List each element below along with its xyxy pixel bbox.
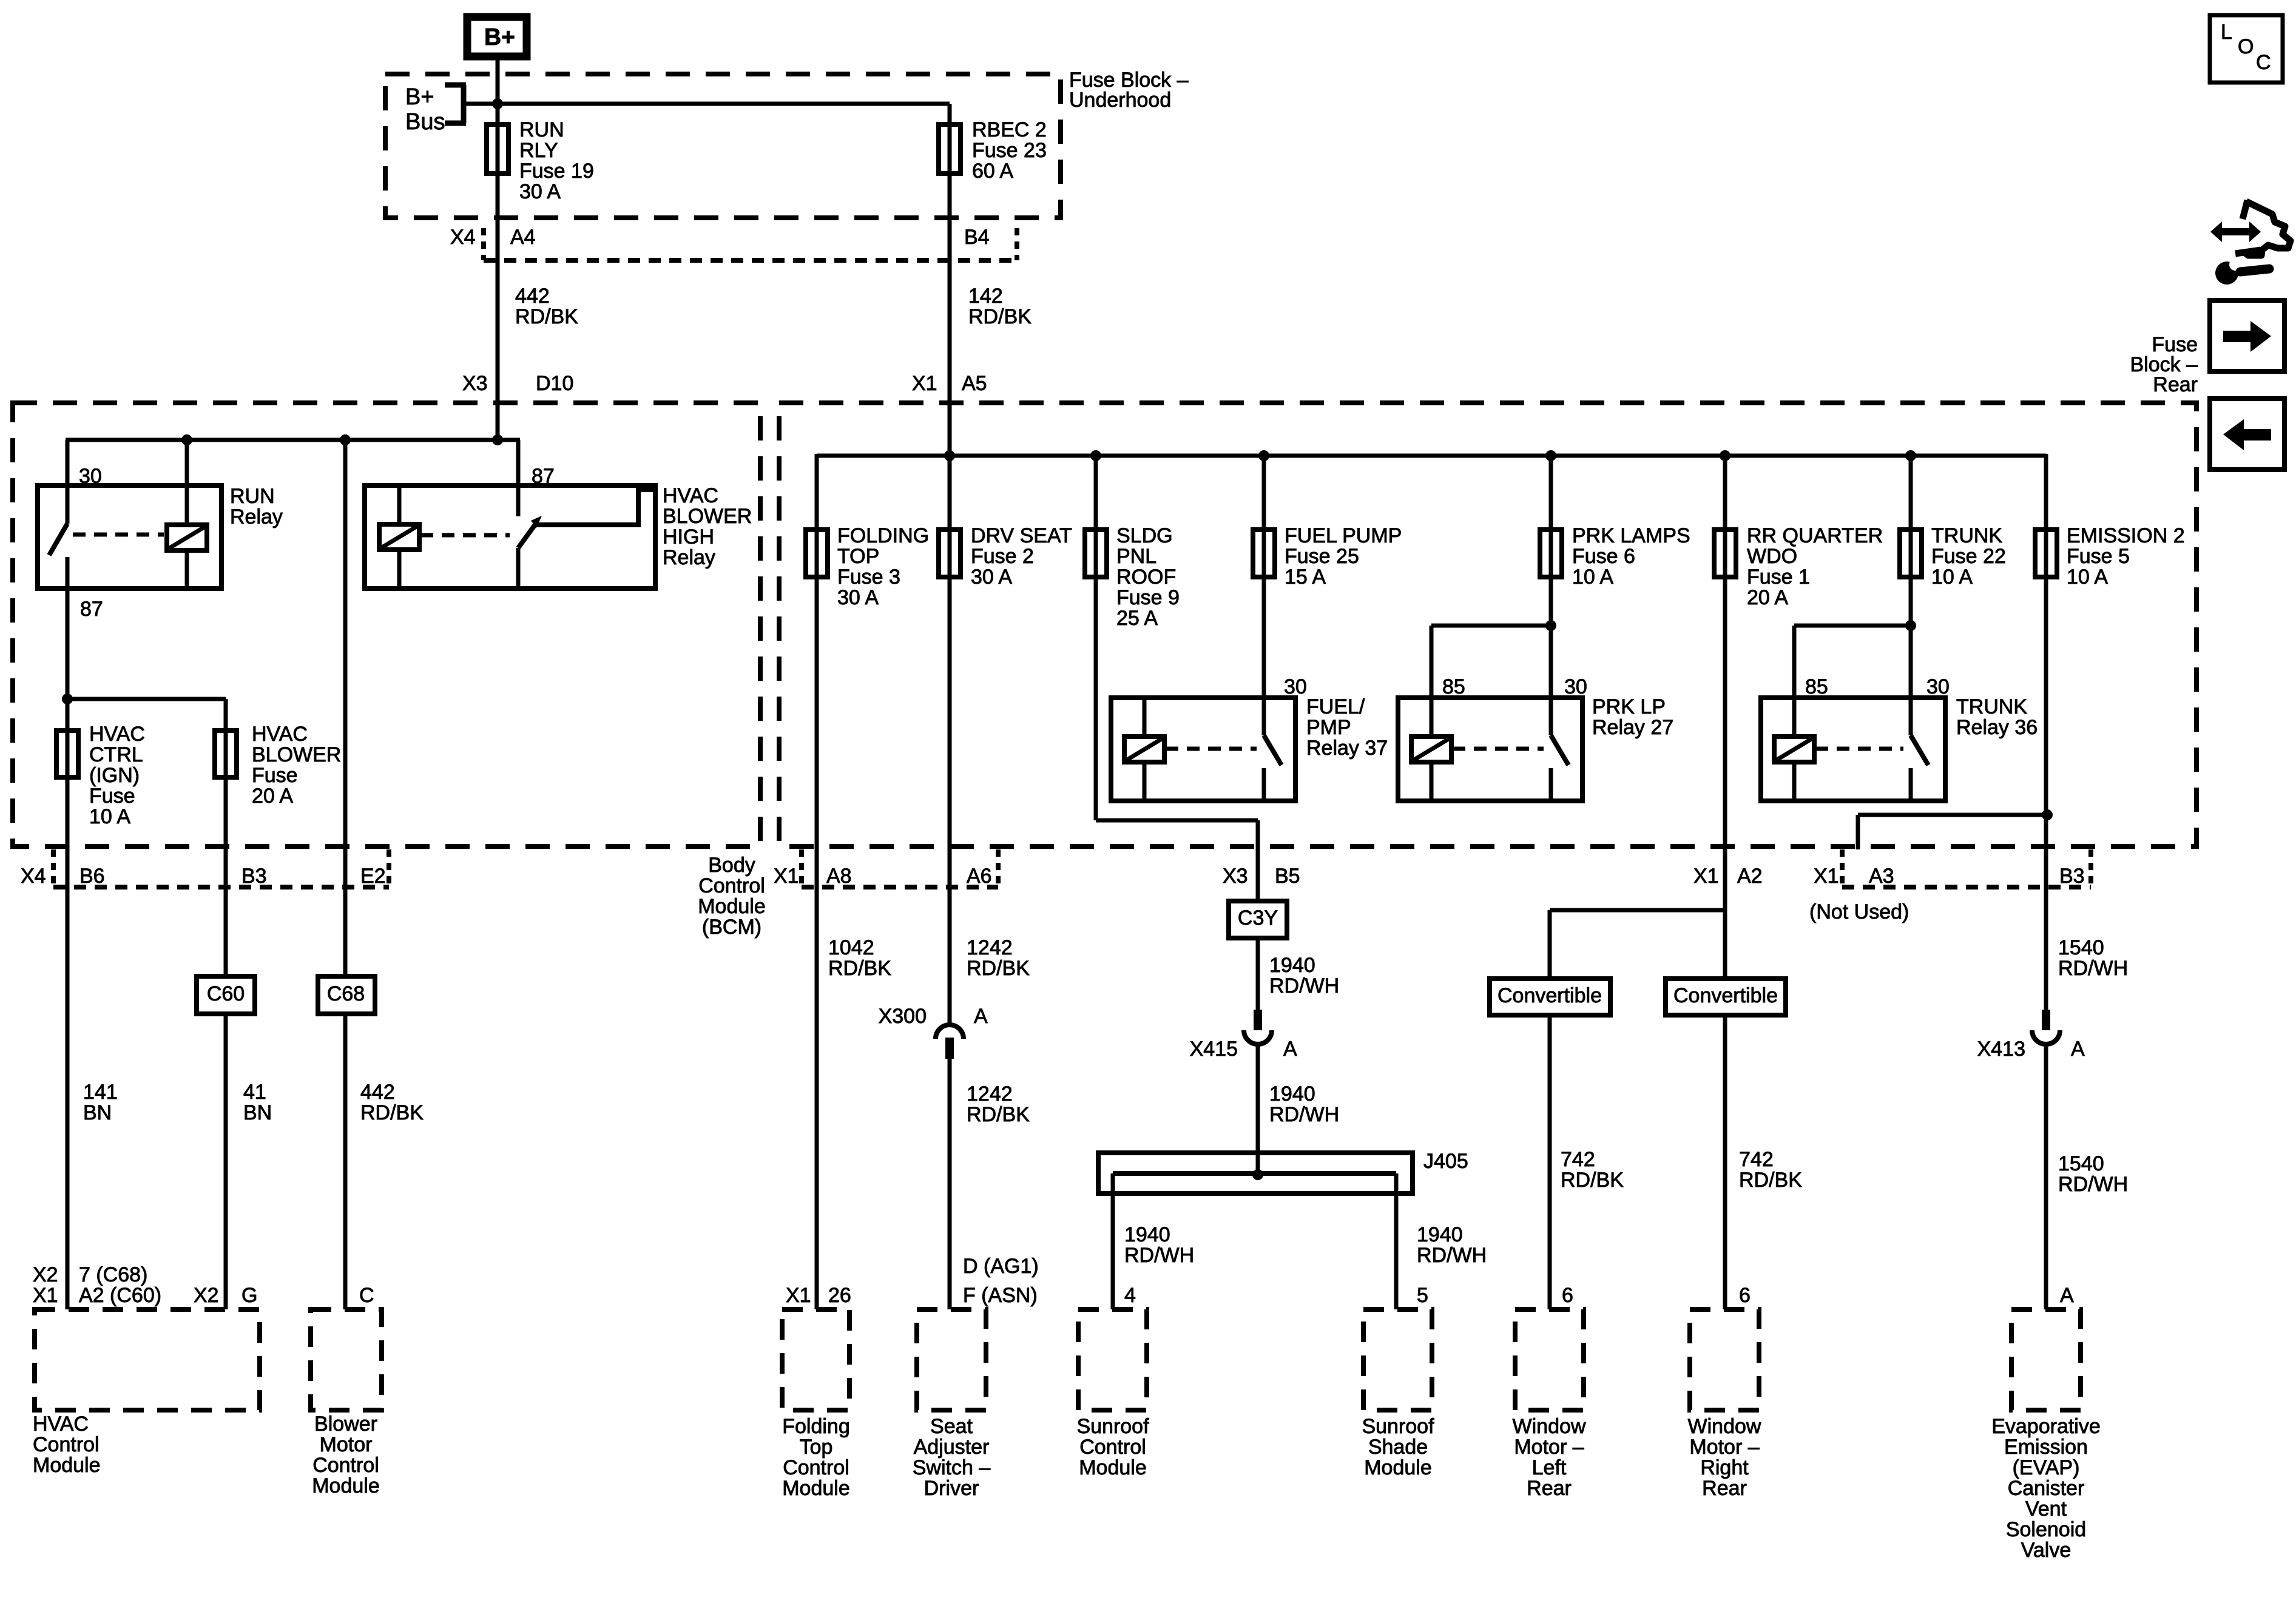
svg-text:RD/BK: RD/BK — [968, 305, 1032, 328]
svg-text:Top: Top — [800, 1436, 833, 1459]
svg-text:Right: Right — [1700, 1456, 1749, 1479]
svg-text:TRUNK: TRUNK — [1956, 695, 2027, 718]
svg-text:60 A: 60 A — [972, 160, 1013, 183]
svg-text:F (ASN): F (ASN) — [963, 1284, 1038, 1307]
svg-text:SLDG: SLDG — [1116, 524, 1173, 547]
svg-text:PNL: PNL — [1116, 545, 1156, 568]
svg-text:J405: J405 — [1423, 1150, 1468, 1173]
svg-text:X1: X1 — [786, 1284, 811, 1307]
svg-text:O: O — [2238, 35, 2254, 58]
svg-text:20 A: 20 A — [252, 785, 293, 808]
svg-text:30 A: 30 A — [971, 565, 1012, 589]
svg-text:(IGN): (IGN) — [89, 764, 140, 787]
svg-text:30 A: 30 A — [837, 586, 879, 609]
svg-text:D10: D10 — [536, 372, 573, 395]
svg-text:30 A: 30 A — [519, 180, 561, 203]
svg-text:6: 6 — [1562, 1284, 1573, 1307]
svg-text:RD/WH: RD/WH — [2058, 957, 2128, 980]
svg-text:442: 442 — [360, 1081, 395, 1104]
svg-text:RD/BK: RD/BK — [1561, 1169, 1624, 1192]
svg-text:Fuse 9: Fuse 9 — [1116, 586, 1180, 609]
svg-text:B5: B5 — [1275, 865, 1300, 888]
svg-text:RBEC 2: RBEC 2 — [972, 118, 1047, 141]
svg-text:BN: BN — [83, 1101, 112, 1124]
svg-text:X1: X1 — [1693, 865, 1719, 888]
svg-text:Sunroof: Sunroof — [1362, 1415, 1434, 1438]
svg-text:Adjuster: Adjuster — [914, 1436, 990, 1459]
svg-text:A2 (C60): A2 (C60) — [79, 1284, 161, 1307]
svg-text:B4: B4 — [964, 226, 990, 249]
svg-text:X2: X2 — [194, 1284, 219, 1307]
svg-text:RD/WH: RD/WH — [1269, 974, 1339, 998]
svg-text:PMP: PMP — [1306, 716, 1351, 739]
svg-text:Fuse 3: Fuse 3 — [837, 565, 900, 589]
svg-text:X2: X2 — [33, 1263, 58, 1286]
svg-text:6: 6 — [1739, 1284, 1751, 1307]
svg-text:PRK LAMPS: PRK LAMPS — [1572, 524, 1690, 547]
svg-text:X300: X300 — [879, 1005, 927, 1028]
svg-text:FOLDING: FOLDING — [837, 524, 929, 547]
svg-text:Module: Module — [312, 1474, 380, 1497]
svg-text:Seat: Seat — [930, 1415, 973, 1438]
svg-text:10 A: 10 A — [1572, 565, 1613, 589]
svg-text:Folding: Folding — [782, 1415, 850, 1438]
svg-text:G: G — [241, 1284, 257, 1307]
svg-text:Relay 37: Relay 37 — [1306, 737, 1388, 760]
svg-text:1042: 1042 — [828, 936, 874, 959]
svg-text:87: 87 — [80, 598, 103, 621]
svg-text:142: 142 — [968, 285, 1003, 308]
svg-text:Blower: Blower — [314, 1413, 377, 1436]
svg-text:Module: Module — [1079, 1456, 1147, 1479]
svg-text:Sunroof: Sunroof — [1076, 1415, 1149, 1438]
svg-text:X1: X1 — [774, 865, 799, 888]
svg-text:Underhood: Underhood — [1069, 89, 1171, 112]
svg-text:Control: Control — [698, 874, 765, 897]
svg-text:Fuse 2: Fuse 2 — [971, 545, 1034, 568]
svg-text:Fuse 19: Fuse 19 — [519, 160, 594, 183]
svg-text:10 A: 10 A — [89, 805, 130, 828]
svg-text:RD/BK: RD/BK — [515, 305, 578, 328]
svg-text:Control: Control — [312, 1454, 379, 1477]
svg-text:Motor –: Motor – — [1514, 1436, 1584, 1459]
svg-text:Body: Body — [708, 854, 755, 877]
svg-text:RD/BK: RD/BK — [967, 957, 1030, 980]
svg-text:85: 85 — [1442, 675, 1465, 698]
svg-text:20 A: 20 A — [1747, 586, 1788, 609]
svg-text:A5: A5 — [962, 372, 987, 395]
svg-text:RD/BK: RD/BK — [1739, 1169, 1802, 1192]
svg-text:1940: 1940 — [1417, 1223, 1463, 1246]
svg-text:HIGH: HIGH — [663, 525, 714, 549]
svg-text:Fuse: Fuse — [252, 764, 298, 787]
svg-text:Fuse: Fuse — [89, 785, 135, 808]
svg-text:D (AG1): D (AG1) — [963, 1255, 1039, 1278]
svg-text:B6: B6 — [79, 865, 105, 888]
svg-text:A8: A8 — [826, 865, 852, 888]
svg-text:141: 141 — [83, 1081, 118, 1104]
svg-text:30: 30 — [79, 465, 102, 488]
svg-text:Control: Control — [783, 1456, 849, 1479]
svg-text:10 A: 10 A — [1931, 565, 1973, 589]
svg-text:Fuse 22: Fuse 22 — [1931, 545, 2006, 568]
svg-text:1242: 1242 — [967, 1082, 1013, 1106]
svg-text:30: 30 — [1926, 675, 1950, 698]
svg-text:X4: X4 — [21, 865, 46, 888]
svg-text:Convertible: Convertible — [1497, 984, 1602, 1007]
svg-text:X1: X1 — [912, 372, 937, 395]
svg-text:C3Y: C3Y — [1238, 906, 1278, 930]
svg-text:1540: 1540 — [2058, 936, 2104, 959]
svg-text:Module: Module — [1364, 1456, 1432, 1479]
svg-text:CTRL: CTRL — [89, 743, 143, 766]
svg-text:Rear: Rear — [1527, 1477, 1572, 1500]
svg-text:A: A — [974, 1005, 988, 1028]
svg-text:41: 41 — [243, 1081, 266, 1104]
svg-text:Vent: Vent — [2025, 1497, 2067, 1521]
svg-text:Control: Control — [1079, 1436, 1146, 1459]
svg-text:RR QUARTER: RR QUARTER — [1747, 524, 1883, 547]
svg-text:(BCM): (BCM) — [702, 916, 761, 939]
svg-text:Driver: Driver — [924, 1477, 979, 1500]
svg-text:Module: Module — [782, 1477, 850, 1500]
svg-text:FUEL PUMP: FUEL PUMP — [1285, 524, 1402, 547]
svg-text:Window: Window — [1688, 1415, 1761, 1438]
svg-text:X3: X3 — [462, 372, 488, 395]
svg-text:Module: Module — [698, 895, 766, 918]
svg-text:C: C — [359, 1284, 374, 1307]
svg-text:X1: X1 — [33, 1284, 58, 1307]
svg-text:B3: B3 — [2059, 865, 2085, 888]
svg-text:PRK LP: PRK LP — [1592, 695, 1666, 718]
svg-text:A: A — [2060, 1284, 2074, 1307]
svg-text:Module: Module — [33, 1454, 101, 1477]
svg-text:TOP: TOP — [837, 545, 879, 568]
svg-text:A6: A6 — [967, 865, 992, 888]
svg-text:Solenoid: Solenoid — [2006, 1518, 2086, 1541]
svg-text:442: 442 — [515, 285, 550, 308]
svg-text:RLY: RLY — [519, 139, 558, 162]
svg-text:Rear: Rear — [1702, 1477, 1747, 1500]
svg-text:C: C — [2256, 51, 2271, 74]
svg-text:1242: 1242 — [967, 936, 1013, 959]
svg-text:B+: B+ — [484, 24, 515, 50]
svg-text:RD/BK: RD/BK — [360, 1101, 424, 1124]
svg-text:Fuse 5: Fuse 5 — [2067, 545, 2130, 568]
svg-text:RUN: RUN — [230, 485, 275, 508]
svg-text:HVAC: HVAC — [252, 723, 308, 746]
svg-text:Control: Control — [33, 1433, 100, 1456]
svg-text:Relay: Relay — [663, 546, 715, 569]
svg-text:BLOWER: BLOWER — [252, 743, 341, 766]
svg-text:RUN: RUN — [519, 118, 564, 141]
svg-text:7 (C68): 7 (C68) — [79, 1263, 147, 1286]
svg-text:Relay 27: Relay 27 — [1592, 716, 1673, 739]
svg-text:RD/WH: RD/WH — [2058, 1173, 2128, 1196]
svg-text:ROOF: ROOF — [1116, 565, 1176, 589]
svg-text:RD/BK: RD/BK — [828, 957, 891, 980]
svg-text:RD/WH: RD/WH — [1124, 1244, 1194, 1267]
svg-text:C60: C60 — [207, 982, 245, 1005]
svg-text:Emission: Emission — [2004, 1436, 2088, 1459]
svg-text:Valve: Valve — [2021, 1539, 2071, 1562]
svg-text:X1: X1 — [1814, 865, 1839, 888]
svg-text:HVAC: HVAC — [89, 723, 145, 746]
svg-text:E2: E2 — [360, 865, 386, 888]
svg-text:X4: X4 — [450, 226, 476, 249]
svg-text:Evaporative: Evaporative — [1991, 1415, 2101, 1438]
svg-text:85: 85 — [1805, 675, 1828, 698]
svg-text:742: 742 — [1561, 1148, 1595, 1171]
svg-text:B3: B3 — [241, 865, 267, 888]
svg-text:10 A: 10 A — [2067, 565, 2108, 589]
svg-text:A4: A4 — [510, 226, 536, 249]
svg-text:A3: A3 — [1869, 865, 1894, 888]
svg-text:4: 4 — [1124, 1284, 1136, 1307]
svg-text:Fuse 1: Fuse 1 — [1747, 565, 1810, 589]
svg-text:BN: BN — [243, 1101, 272, 1124]
svg-text:Bus: Bus — [405, 109, 445, 135]
svg-text:TRUNK: TRUNK — [1931, 524, 2002, 547]
svg-text:Canister: Canister — [2008, 1477, 2085, 1500]
svg-text:Fuse 23: Fuse 23 — [972, 139, 1047, 162]
svg-text:A2: A2 — [1737, 865, 1763, 888]
svg-text:RD/WH: RD/WH — [1417, 1244, 1487, 1267]
svg-text:5: 5 — [1417, 1284, 1428, 1307]
svg-text:Switch –: Switch – — [913, 1456, 991, 1479]
svg-text:BLOWER: BLOWER — [663, 505, 752, 528]
svg-text:HVAC: HVAC — [663, 484, 718, 507]
svg-text:Relay 36: Relay 36 — [1956, 716, 2038, 739]
svg-text:EMISSION 2: EMISSION 2 — [2067, 524, 2185, 547]
svg-text:Shade: Shade — [1368, 1436, 1428, 1459]
svg-text:DRV SEAT: DRV SEAT — [971, 524, 1072, 547]
svg-text:30: 30 — [1284, 675, 1307, 698]
svg-text:RD/WH: RD/WH — [1269, 1103, 1339, 1126]
svg-text:B+: B+ — [405, 84, 434, 110]
svg-text:Rear: Rear — [2153, 373, 2198, 396]
svg-text:HVAC: HVAC — [33, 1413, 89, 1436]
svg-text:87: 87 — [532, 465, 555, 488]
svg-text:Left: Left — [1532, 1456, 1567, 1479]
svg-text:A: A — [2071, 1038, 2085, 1061]
svg-text:Window: Window — [1513, 1415, 1586, 1438]
svg-text:742: 742 — [1739, 1148, 1774, 1171]
svg-text:26: 26 — [828, 1284, 851, 1307]
svg-text:1940: 1940 — [1124, 1223, 1170, 1246]
svg-text:C68: C68 — [327, 982, 365, 1005]
svg-text:X413: X413 — [1977, 1038, 2025, 1061]
svg-text:FUEL/: FUEL/ — [1306, 695, 1365, 718]
svg-text:A: A — [1283, 1038, 1297, 1061]
svg-text:1940: 1940 — [1269, 1082, 1315, 1106]
svg-text:15 A: 15 A — [1285, 565, 1326, 589]
svg-text:Convertible: Convertible — [1673, 984, 1778, 1007]
svg-text:X3: X3 — [1223, 865, 1248, 888]
svg-text:Fuse 25: Fuse 25 — [1285, 545, 1359, 568]
svg-text:Motor: Motor — [320, 1433, 373, 1456]
svg-text:Relay: Relay — [230, 505, 283, 528]
svg-text:Fuse 6: Fuse 6 — [1572, 545, 1635, 568]
svg-text:(EVAP): (EVAP) — [2013, 1456, 2080, 1479]
svg-text:L: L — [2221, 21, 2232, 44]
svg-text:1540: 1540 — [2058, 1152, 2104, 1175]
svg-text:30: 30 — [1564, 675, 1587, 698]
svg-text:(Not Used): (Not Used) — [1809, 900, 1909, 923]
svg-text:1940: 1940 — [1269, 954, 1315, 977]
svg-text:Motor –: Motor – — [1689, 1436, 1759, 1459]
svg-text:RD/BK: RD/BK — [967, 1103, 1030, 1126]
svg-text:X415: X415 — [1190, 1038, 1238, 1061]
svg-text:25 A: 25 A — [1116, 607, 1158, 630]
svg-text:WDO: WDO — [1747, 545, 1797, 568]
